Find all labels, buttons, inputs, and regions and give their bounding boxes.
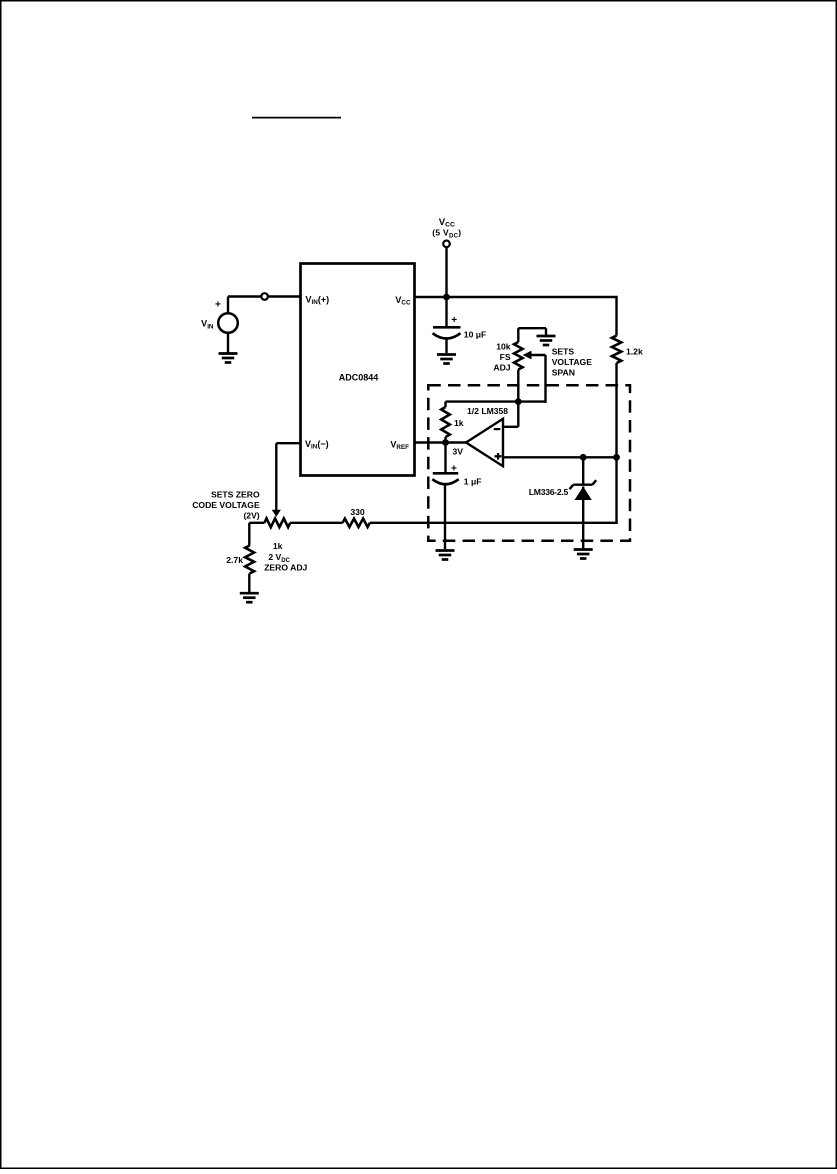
svg-text:ADJ: ADJ [493, 362, 510, 372]
svg-text:10k: 10k [496, 341, 511, 351]
svg-text:3V: 3V [453, 446, 464, 456]
svg-text:1.2k: 1.2k [626, 346, 643, 356]
svg-text:1k: 1k [273, 541, 283, 551]
svg-text:1k: 1k [454, 418, 464, 428]
svg-text:330: 330 [350, 507, 365, 517]
svg-text:CODE VOLTAGE: CODE VOLTAGE [192, 500, 260, 510]
svg-text:FS: FS [500, 352, 511, 362]
svg-text:ZERO ADJ: ZERO ADJ [264, 563, 307, 573]
svg-text:10 μF: 10 μF [464, 329, 486, 339]
svg-text:ADC0844: ADC0844 [339, 372, 379, 382]
svg-text:LM336-2.5: LM336-2.5 [529, 487, 569, 497]
svg-text:1 μF: 1 μF [464, 476, 482, 486]
svg-text:+: + [451, 315, 457, 326]
svg-text:SPAN: SPAN [552, 368, 575, 378]
svg-text:1/2 LM358: 1/2 LM358 [467, 406, 508, 416]
svg-text:SETS: SETS [552, 347, 575, 357]
svg-text:VOLTAGE: VOLTAGE [552, 357, 593, 367]
svg-text:(2V): (2V) [243, 511, 259, 521]
svg-text:+: + [451, 464, 457, 475]
svg-text:2.7k: 2.7k [226, 555, 243, 565]
svg-text:+: + [215, 300, 221, 311]
svg-text:SETS ZERO: SETS ZERO [211, 490, 260, 500]
